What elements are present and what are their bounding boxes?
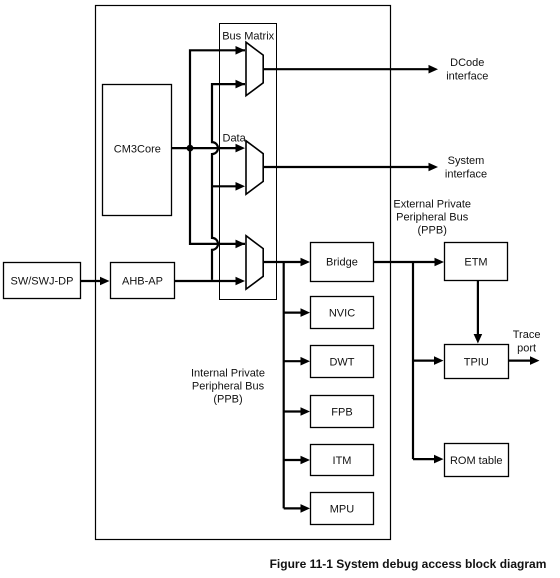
mux 3 (System/PPB select) (246, 236, 263, 290)
svg-text:ETM: ETM (464, 257, 487, 269)
mux 1 (ICode/DCode select) (246, 42, 263, 95)
block ROM table (445, 444, 509, 477)
label Internal Private Peripheral Bus (PPB) (191, 368, 265, 406)
wire to MPU (284, 504, 310, 513)
svg-text:CM3Core: CM3Core (114, 143, 161, 155)
wire CM3Core output to mux 2 input 1 (172, 144, 245, 153)
wire to ITM (284, 456, 310, 465)
block NVIC (311, 297, 374, 329)
svg-text:Figure 11-1 System debug acces: Figure 11-1 System debug access block di… (270, 557, 547, 571)
Bus Matrix container box (220, 24, 277, 300)
wire external PPB vertical bus (412, 262, 414, 459)
svg-text:TPIU: TPIU (464, 357, 489, 369)
svg-text:Bus Matrix: Bus Matrix (222, 31, 274, 43)
mux 2 (Data select) (246, 141, 263, 195)
svg-text:Bridge: Bridge (326, 257, 358, 269)
wire mux 1 output to DCode interface (263, 65, 438, 74)
svg-text:FPB: FPB (331, 406, 352, 418)
wire to ROM table (413, 455, 444, 464)
block Bridge (311, 243, 374, 282)
wire ETM to TPIU (474, 281, 483, 344)
wire to DWT (284, 357, 310, 366)
outer container box (96, 6, 391, 540)
wire AHB-AP to mux 3 input 2 (175, 277, 245, 286)
wire to NVIC (284, 308, 310, 317)
svg-text:ITM: ITM (333, 455, 352, 467)
junction dot on CM3Core output (187, 145, 194, 152)
wire core branch up to mux 1 input 1 (190, 46, 245, 148)
svg-text:DWT: DWT (329, 356, 354, 368)
svg-text:Data: Data (223, 132, 247, 144)
svg-text:NVIC: NVIC (329, 308, 355, 320)
wire to TPIU (413, 356, 444, 365)
wire TPIU to trace port (508, 356, 540, 365)
svg-text:Internal PrivatePeripheral Bus: Internal PrivatePeripheral Bus(PPB) (191, 368, 265, 406)
svg-text:DCodeinterface: DCodeinterface (446, 57, 488, 83)
wire internal PPB vertical bus (283, 262, 285, 508)
svg-text:Systeminterface: Systeminterface (445, 155, 487, 181)
wire mux 2 output to System interface (263, 163, 438, 172)
svg-text:ROM table: ROM table (450, 455, 503, 467)
label Data (223, 132, 247, 144)
label DCode interface (446, 57, 488, 83)
wire core branch down to mux 3 input 1 (190, 148, 245, 248)
svg-text:MPU: MPU (330, 503, 355, 515)
block TPIU (445, 345, 509, 379)
block SW/SWJ-DP (4, 263, 81, 299)
label External Private Peripheral Bus (PPB) (393, 199, 471, 237)
wire to FPB (284, 407, 310, 416)
label System interface (445, 155, 487, 181)
wire mux 3 output to Bridge (263, 258, 310, 267)
wire riser branch to mux 2 input 2 (212, 182, 245, 191)
block MPU (311, 493, 374, 525)
caption Figure 11-1 System debug access block diagram (270, 557, 547, 571)
wire AHB-AP vertical riser with crossover hops at x=212 (212, 80, 245, 280)
block FPB (311, 396, 374, 428)
svg-text:External PrivatePeripheral Bus: External PrivatePeripheral Bus(PPB) (393, 199, 471, 237)
block DWT (311, 346, 374, 378)
svg-text:SW/SWJ-DP: SW/SWJ-DP (11, 275, 74, 287)
wire SW/SWJ-DP to AHB-AP (81, 277, 110, 286)
block ETM (445, 243, 508, 281)
svg-text:AHB-AP: AHB-AP (122, 275, 163, 287)
block ITM (311, 445, 374, 476)
label Trace port (513, 329, 541, 355)
label Bus Matrix (222, 31, 274, 43)
wire Bridge to ETM (373, 258, 444, 267)
svg-text:Traceport: Traceport (513, 329, 541, 355)
block CM3Core (103, 85, 172, 216)
block AHB-AP (111, 263, 175, 299)
